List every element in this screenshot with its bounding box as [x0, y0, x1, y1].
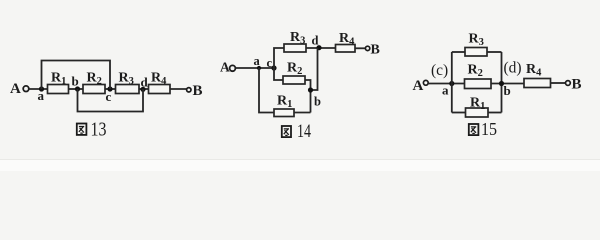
wire R2 down to R1 branch through b (fig14) [305, 80, 311, 113]
resistor R2 (fig13) [83, 71, 105, 94]
terminal B (fig14) [355, 43, 380, 58]
wire R3 to R4 through d (fig14) [306, 47, 336, 49]
svg-text:a: a [254, 54, 261, 68]
node a (fig15) [442, 81, 454, 98]
node a (fig13) [38, 86, 45, 103]
svg-text:B: B [193, 83, 203, 99]
svg-text:A: A [413, 78, 424, 94]
terminal B (fig15) [551, 77, 582, 93]
terminal B (fig13) [187, 83, 203, 99]
node d (fig13) [140, 75, 148, 92]
terminal A (fig14) [220, 60, 235, 75]
resistor R4 (fig13) [149, 71, 171, 94]
caption 图15 (fig15) [469, 119, 497, 139]
resistor R2 (fig14) [283, 61, 305, 85]
svg-text:d: d [141, 75, 149, 90]
resistor R4 (fig15) [524, 62, 551, 88]
resistor R2 (fig15) [465, 63, 492, 89]
svg-text:B: B [371, 43, 380, 58]
caption 图13 (fig13) [77, 120, 107, 141]
svg-text:(c): (c) [431, 62, 448, 79]
wire left vertical a (fig15) [451, 52, 453, 113]
resistor R4 (fig14) [336, 31, 356, 52]
svg-text:c: c [106, 89, 112, 104]
resistor R1 (fig13) [48, 71, 69, 94]
wire R4 to B (fig13) [170, 88, 187, 90]
svg-text:c: c [267, 56, 273, 70]
node b (fig15) [499, 81, 511, 98]
wire R2 to R3 (fig13) [105, 88, 116, 90]
wire R3 to R4 (fig13) [139, 88, 149, 90]
node a (fig14) [254, 54, 262, 70]
wire a down to R1 branch (fig14) [259, 68, 274, 113]
node b (fig13) [72, 74, 81, 92]
wire R2 to R4 (fig15) [491, 83, 524, 85]
svg-text:A: A [10, 81, 21, 97]
svg-text:15: 15 [481, 119, 497, 139]
svg-text:B: B [572, 77, 582, 93]
node b (fig14) [308, 87, 321, 108]
wire A to node c (fig14) [235, 67, 274, 69]
resistor R1 (fig14) [274, 94, 294, 117]
wire R1 to R2 (fig13) [69, 88, 84, 90]
wire A to R1 (fig13) [29, 88, 48, 90]
resistor R3 (fig13) [116, 71, 140, 94]
resistor R3 (fig14) [284, 30, 306, 52]
terminal A (fig15) [413, 78, 429, 94]
resistor R1 branch (fig15) [452, 96, 502, 118]
svg-text:(d): (d) [504, 60, 522, 77]
svg-text:A: A [220, 60, 230, 75]
wire c up to R3 branch (fig14) [274, 48, 284, 68]
wire R1 to b corner (fig14) [294, 112, 311, 114]
wire top bypass a-c (fig13) [42, 61, 111, 90]
bottom light band [0, 160, 600, 172]
svg-text:13: 13 [91, 120, 107, 141]
resistor R3 branch (fig15) [452, 32, 502, 57]
wire d down to b (fig14) [311, 48, 318, 90]
svg-text:a: a [38, 88, 45, 103]
node c (fig13) [106, 86, 113, 104]
node d (fig14) [312, 34, 322, 51]
wire bottom bypass b-d (fig13) [78, 89, 144, 112]
svg-text:a: a [442, 83, 449, 98]
svg-text:d: d [312, 34, 319, 48]
svg-text:b: b [72, 74, 79, 89]
svg-text:b: b [314, 95, 321, 109]
svg-text:b: b [504, 83, 511, 98]
wire A to R2 (fig15) [428, 83, 465, 85]
node c (fig14) [267, 56, 277, 71]
svg-text:14: 14 [297, 122, 311, 142]
wire right vertical b (fig15) [501, 52, 503, 113]
caption 图14 (fig14) [282, 122, 311, 142]
terminal A (fig13) [10, 81, 29, 97]
wire c down to R2 branch (fig14) [274, 68, 283, 80]
